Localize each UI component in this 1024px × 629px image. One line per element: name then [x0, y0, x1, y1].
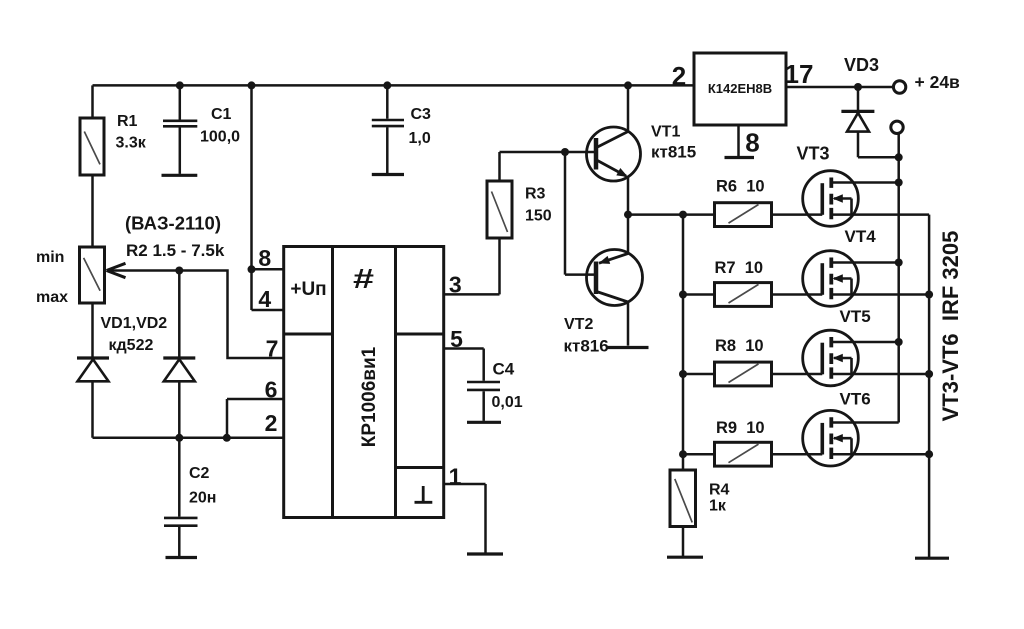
svg-text:+ 24в: + 24в: [915, 72, 961, 92]
svg-text:R7 10: R7 10: [715, 259, 764, 277]
svg-text:R8 10: R8 10: [715, 337, 764, 355]
svg-text:кт816: кт816: [564, 337, 609, 356]
svg-text:R9 10: R9 10: [716, 419, 765, 437]
svg-text:2: 2: [265, 410, 278, 436]
svg-text:C1: C1: [211, 106, 232, 123]
svg-text:8: 8: [745, 127, 759, 157]
svg-text:2: 2: [672, 61, 686, 91]
svg-text:VD1,VD2: VD1,VD2: [101, 315, 168, 332]
svg-text:C2: C2: [189, 465, 210, 482]
svg-text:20н: 20н: [189, 490, 216, 507]
svg-text:VT5: VT5: [840, 307, 871, 326]
svg-text:3.3к: 3.3к: [116, 135, 147, 152]
svg-text:VT3-VT6 IRF 3205: VT3-VT6 IRF 3205: [938, 231, 963, 422]
svg-text:3: 3: [449, 272, 462, 298]
svg-text:R1: R1: [117, 113, 138, 130]
svg-text:VT2: VT2: [564, 316, 593, 333]
svg-text:R2 1.5 - 7.5k: R2 1.5 - 7.5k: [126, 241, 225, 260]
svg-text:1к: 1к: [709, 498, 727, 515]
svg-text:VT1: VT1: [651, 124, 680, 141]
svg-text:150: 150: [525, 208, 552, 225]
svg-text:max: max: [36, 289, 68, 306]
svg-text:VT3: VT3: [797, 144, 830, 164]
svg-text:+Uп: +Uп: [290, 279, 326, 300]
svg-text:R4: R4: [709, 482, 730, 499]
svg-text:5: 5: [450, 326, 463, 352]
svg-text:К142ЕН8В: К142ЕН8В: [708, 81, 772, 96]
svg-text:кт815: кт815: [651, 143, 696, 162]
svg-text:кд522: кд522: [109, 337, 154, 354]
svg-text:(ВАЗ-2110): (ВАЗ-2110): [125, 213, 221, 234]
svg-text:R3: R3: [525, 186, 546, 203]
svg-text:0,01: 0,01: [492, 394, 523, 411]
svg-text:C3: C3: [411, 106, 432, 123]
svg-text:VT6: VT6: [840, 390, 871, 409]
svg-text:6: 6: [265, 377, 278, 403]
svg-text:100,0: 100,0: [200, 129, 240, 146]
svg-text:min: min: [36, 249, 64, 266]
svg-text:8: 8: [258, 245, 271, 271]
svg-text:4: 4: [258, 286, 271, 312]
svg-text:1,0: 1,0: [409, 130, 431, 147]
svg-text:1: 1: [449, 464, 462, 490]
svg-text:#: #: [353, 264, 374, 295]
svg-text:C4: C4: [493, 360, 515, 379]
svg-text:R6 10: R6 10: [716, 178, 765, 196]
svg-text:VT4: VT4: [845, 227, 877, 246]
svg-text:7: 7: [266, 336, 279, 362]
svg-text:VD3: VD3: [844, 55, 879, 75]
svg-text:КР1006ви1: КР1006ви1: [359, 346, 380, 447]
svg-text:17: 17: [785, 59, 814, 89]
